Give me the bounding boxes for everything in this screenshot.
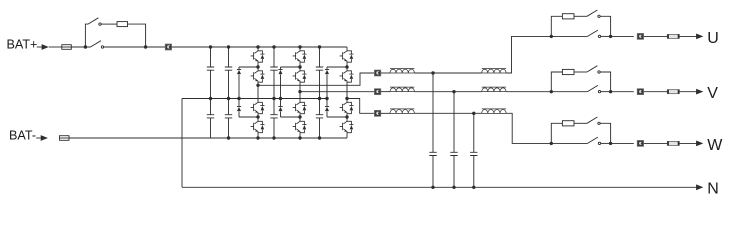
wire fuse to output arrow U: [679, 35, 696, 37]
resistor R2 (phase U precharge): [562, 14, 574, 19]
wire phase U from leg 1 to filter row: [258, 73, 374, 85]
wire to current sensor CS6: [611, 91, 634, 93]
capacitor C1 (DC+ to mid): [207, 47, 214, 99]
junction dots on DC- rail: [227, 136, 321, 139]
switch S1 main DC contactor: [91, 41, 101, 47]
node contactor U merge junction: [609, 35, 612, 38]
wire merge node to current sensor: [146, 46, 166, 48]
wire contactor V branch riser: [551, 72, 562, 92]
node contactor W split junction: [550, 142, 553, 145]
wire L3a to L3b: [414, 112, 481, 114]
transistor Q1 (leg 1 top IGBT): [251, 49, 265, 64]
transistor Q4 (leg 1 bottom IGBT): [251, 120, 265, 135]
wire L1a to L1b: [414, 72, 481, 74]
node leg 2 clamp junctions: [298, 65, 301, 118]
junction dots on N rail: [431, 186, 475, 189]
wire switch to merge node W: [601, 142, 611, 144]
inductor L1a (phase U): [390, 69, 414, 73]
wire CS to fuse F3: [644, 35, 668, 37]
wire to current sensor CS5: [611, 35, 634, 37]
capacitor C2 (DC+ to mid): [225, 47, 232, 99]
current sensor CS7 (output W): [637, 140, 643, 146]
wire CS to inductor L3a: [381, 112, 390, 114]
wire L2a to L2b: [414, 91, 481, 93]
wire DC+ rail: [172, 46, 347, 48]
capacitor C3 (DC+ to mid): [270, 47, 277, 99]
current sensor CS1 (DC+): [165, 44, 171, 50]
current sensor CS5 (output U): [637, 33, 643, 39]
resistor R3 (phase V precharge): [562, 69, 574, 74]
node leg 3 clamp junctions: [345, 65, 348, 118]
wire N rail: [182, 186, 697, 188]
wire phase W from leg 3 to filter row: [347, 99, 374, 114]
wire branch V drop: [600, 72, 610, 92]
wire DC- rail: [69, 137, 347, 139]
wire S1 to merge node: [104, 46, 146, 48]
node filter cap tap phase W: [472, 112, 475, 115]
node leg 1 clamp junctions: [256, 65, 259, 118]
midpoint rail wire: [182, 98, 327, 100]
wire branch U drop: [600, 16, 610, 36]
svg-text:W: W: [707, 137, 723, 154]
transistor Q3 (leg 1 lower-mid IGBT): [251, 101, 265, 116]
inductor L2a (phase V): [390, 88, 414, 92]
wire F1 to precharge node: [71, 46, 90, 48]
node leg 3 phase output junction: [345, 97, 348, 100]
current sensor CS4 (phase W): [374, 110, 380, 116]
fuse F2 (BAT- input fuse): [60, 136, 70, 141]
clamp diodes D2a/D2b column leg 2: [278, 67, 300, 117]
capacitor C5 (mid to DC-): [207, 99, 214, 139]
switch S2 precharge (branch): [88, 18, 98, 24]
wire precharge branch riser left: [85, 24, 88, 47]
wire phase U riser to contactor row: [506, 36, 551, 73]
switch S4b precharge (phase V): [587, 66, 597, 72]
inductor L3a (phase W): [390, 110, 414, 114]
wire phase W riser to contactor row: [506, 113, 551, 143]
wire R to switch (branch V): [574, 71, 587, 73]
inductor L1b (phase U): [482, 69, 506, 73]
node contactor U split junction: [550, 35, 553, 38]
transistor Q12 (leg 3 bottom IGBT): [340, 120, 354, 135]
wire switch to merge node V: [601, 91, 611, 93]
wire contactor W branch riser: [551, 123, 562, 143]
wire fuse to output arrow W: [679, 142, 696, 144]
switch S4a main (phase V): [588, 85, 598, 91]
wire BAT+ lead: [37, 46, 42, 48]
capacitor C11 (phase W filter): [470, 113, 477, 187]
wire CS to fuse F4: [644, 91, 668, 93]
node leg 2 phase output junction: [298, 90, 301, 93]
capacitor C10 (phase V filter): [450, 92, 457, 188]
wire contactor W main row: [551, 142, 587, 144]
fuse F4 (output V): [667, 90, 679, 94]
current sensor CS6 (output V): [637, 89, 643, 95]
svg-text:U: U: [707, 30, 719, 47]
transistor Q10 (leg 3 upper-mid IGBT): [340, 69, 354, 84]
switch S5b precharge (phase W): [587, 117, 597, 123]
node contactor V split junction: [550, 90, 553, 93]
wire CS to inductor L1a: [381, 72, 390, 74]
node contactor W merge junction: [609, 142, 612, 145]
wire leg 3 vertical: [346, 47, 348, 138]
junction dots on midpoint rail: [209, 97, 329, 100]
clamp diodes D3a/D3b column leg 3: [325, 67, 347, 117]
transistor Q11 (leg 3 lower-mid IGBT): [340, 101, 354, 116]
capacitor C6 (mid to DC-): [225, 99, 232, 139]
switch S3a main (phase U): [588, 30, 598, 36]
wire branch W drop: [600, 123, 610, 143]
wire neutral riser x=182: [181, 99, 183, 188]
resistor R4 (phase W precharge): [562, 121, 574, 126]
transistor Q7 (leg 2 lower-mid IGBT): [293, 101, 307, 116]
wire switch to merge node U: [601, 35, 611, 37]
current sensor CS3 (phase V): [374, 89, 380, 95]
arrow output W: [696, 141, 703, 147]
wire leg 1 vertical: [257, 47, 259, 138]
wire arrow to fuse F1: [49, 46, 62, 48]
svg-text:BAT+: BAT+: [7, 38, 38, 52]
capacitor C9 (phase U filter): [429, 73, 436, 187]
wire R to switch (branch U): [574, 15, 587, 17]
inductor L2b (phase V): [482, 88, 506, 92]
arrow output V: [696, 89, 703, 95]
transistor Q5 (leg 2 top IGBT): [293, 49, 307, 64]
node contactor V merge junction: [609, 90, 612, 93]
node BAT+ precharge split junction: [84, 45, 87, 48]
wire phase V from leg 2 to filter row: [300, 91, 374, 93]
wire CS to inductor L2a: [381, 91, 390, 93]
node precharge merge junction: [144, 45, 147, 48]
clamp diodes D1a/D1b column leg 1: [237, 67, 258, 117]
junction dots on DC+ rail: [209, 45, 321, 48]
svg-text:BAT-: BAT-: [9, 128, 36, 142]
node filter cap tap phase U: [431, 71, 434, 74]
transistor Q2 (leg 1 upper-mid IGBT): [251, 69, 265, 84]
transistor Q9 (leg 3 top IGBT): [340, 49, 354, 64]
wire CS to fuse F5: [644, 142, 668, 144]
inductor L3b (phase W): [482, 110, 506, 114]
arrow output N: [696, 184, 703, 190]
fuse F1 (BAT+ input fuse): [62, 45, 72, 50]
wire leg 2 vertical: [299, 47, 301, 138]
wire BAT- lead: [36, 137, 41, 139]
switch S5a main (phase W): [588, 137, 598, 143]
capacitor C8 (mid to DC-): [316, 99, 323, 139]
wire contactor U branch riser: [551, 16, 562, 36]
current sensor CS2 (phase U): [374, 70, 380, 76]
wire fuse to output arrow V: [679, 91, 696, 93]
wire contactor V main row: [551, 91, 587, 93]
arrow BAT+ input: [42, 44, 49, 50]
transistor Q6 (leg 2 upper-mid IGBT): [293, 69, 307, 84]
svg-text:N: N: [707, 181, 719, 198]
wire R to switch (branch W): [574, 122, 587, 124]
node filter cap tap phase V: [452, 90, 455, 93]
capacitor C7 (mid to DC-): [270, 99, 277, 139]
svg-text:V: V: [707, 85, 718, 102]
wire contactor U main row: [551, 35, 587, 37]
node leg 1 phase output junction: [256, 84, 259, 87]
transistor Q8 (leg 2 bottom IGBT): [293, 120, 307, 135]
capacitor C4 (DC+ to mid): [316, 47, 323, 99]
fuse F5 (output W): [667, 141, 679, 145]
wire R1 to branch drop: [128, 24, 146, 47]
wire S2 to R1: [101, 23, 117, 25]
switch S3b precharge (phase U): [587, 10, 597, 16]
arrow output U: [696, 34, 703, 40]
wire to current sensor CS7: [611, 142, 634, 144]
fuse F3 (output U): [667, 34, 679, 38]
wire phase V to contactor row: [506, 91, 551, 93]
arrow BAT- input: [41, 135, 48, 141]
resistor R1 (precharge): [117, 22, 128, 27]
